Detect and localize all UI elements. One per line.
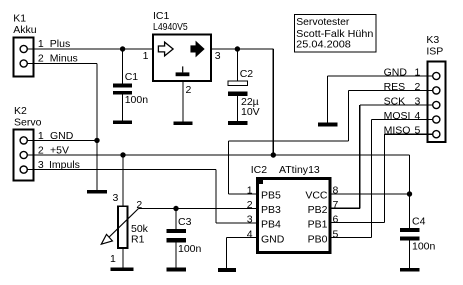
svg-text:RES: RES (384, 81, 406, 93)
svg-text:Servotester: Servotester (296, 16, 350, 28)
svg-text:3: 3 (215, 50, 221, 62)
svg-text:5: 5 (333, 228, 339, 240)
svg-text:8: 8 (333, 185, 339, 197)
svg-text:PB2: PB2 (308, 204, 328, 216)
svg-text:25.04.2008: 25.04.2008 (296, 39, 351, 51)
svg-text:2: 2 (38, 145, 44, 157)
svg-text:PB3: PB3 (261, 204, 281, 216)
svg-text:3: 3 (113, 192, 119, 204)
svg-text:MISO: MISO (384, 125, 411, 137)
svg-text:K3: K3 (426, 34, 439, 46)
svg-text:Plus: Plus (50, 38, 70, 50)
svg-text:GND: GND (50, 130, 74, 142)
svg-text:2: 2 (186, 84, 192, 96)
svg-text:SCK: SCK (384, 96, 406, 108)
svg-text:100n: 100n (125, 94, 149, 106)
svg-text:100n: 100n (412, 240, 436, 252)
svg-text:4: 4 (247, 228, 253, 240)
svg-text:ATtiny13: ATtiny13 (279, 164, 320, 176)
svg-text:100n: 100n (178, 243, 202, 255)
svg-text:1: 1 (414, 67, 420, 79)
svg-text:C4: C4 (412, 216, 426, 228)
svg-text:R1: R1 (131, 234, 145, 246)
svg-text:K2: K2 (14, 105, 27, 117)
svg-text:3: 3 (38, 159, 44, 171)
svg-text:2: 2 (38, 53, 44, 65)
svg-text:Akku: Akku (13, 24, 37, 36)
svg-text:Impuls: Impuls (49, 159, 80, 171)
svg-text:GND: GND (261, 233, 285, 245)
svg-text:5: 5 (414, 125, 420, 137)
svg-text:C3: C3 (178, 216, 192, 228)
svg-text:4: 4 (414, 110, 420, 122)
svg-text:1: 1 (38, 38, 44, 50)
svg-text:+5V: +5V (50, 145, 69, 157)
svg-text:1: 1 (247, 185, 253, 197)
svg-text:IC2: IC2 (251, 164, 268, 176)
svg-text:3: 3 (414, 96, 420, 108)
svg-text:PB5: PB5 (261, 190, 281, 202)
svg-text:10V: 10V (241, 106, 260, 118)
svg-text:C1: C1 (125, 71, 139, 83)
svg-text:ISP: ISP (426, 45, 443, 57)
svg-text:L4940V5: L4940V5 (153, 21, 188, 33)
svg-text:GND: GND (384, 67, 408, 79)
svg-text:PB1: PB1 (308, 219, 328, 231)
svg-text:3: 3 (247, 214, 253, 226)
svg-text:2: 2 (136, 199, 142, 211)
svg-text:VCC: VCC (305, 190, 328, 202)
svg-text:PB4: PB4 (261, 219, 281, 231)
svg-text:Minus: Minus (50, 53, 78, 65)
svg-text:K1: K1 (13, 13, 26, 25)
svg-text:C2: C2 (240, 68, 254, 80)
svg-text:2: 2 (414, 81, 420, 93)
svg-text:1: 1 (110, 253, 116, 265)
svg-text:Servo: Servo (14, 117, 42, 129)
svg-text:1: 1 (143, 50, 149, 62)
svg-text:6: 6 (333, 214, 339, 226)
svg-text:MOSI: MOSI (384, 110, 411, 122)
svg-text:7: 7 (333, 199, 339, 211)
svg-text:2: 2 (247, 199, 253, 211)
svg-text:1: 1 (38, 130, 44, 142)
svg-text:PB0: PB0 (308, 233, 328, 245)
